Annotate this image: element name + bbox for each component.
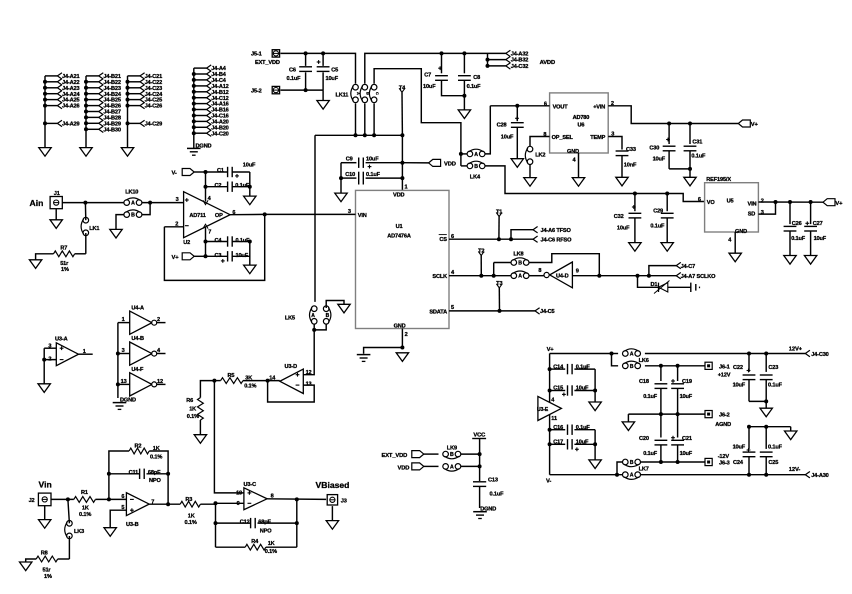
capacitor C2 bbox=[206, 186, 228, 188]
connector pin J4-B23 bbox=[86, 87, 99, 89]
wire U3-B pin5 gnd bbox=[110, 510, 126, 528]
svg-text:0.1uF: 0.1uF bbox=[576, 425, 591, 431]
wire LK4-B right to REF rail bbox=[485, 166, 635, 194]
node C26 top node bbox=[788, 200, 792, 204]
svg-text:C8: C8 bbox=[473, 75, 480, 81]
wire C16/C17 right gnd bbox=[594, 430, 596, 460]
svg-text:10uF: 10uF bbox=[680, 451, 693, 457]
svg-text:3: 3 bbox=[176, 197, 179, 203]
node junction J4-A12 bbox=[192, 84, 196, 88]
node VDD bus LK11-2 bbox=[363, 133, 367, 137]
node VDD bus LK11-1 bbox=[354, 133, 358, 137]
node C24 top node bbox=[747, 425, 751, 429]
svg-text:R7: R7 bbox=[60, 246, 67, 252]
svg-text:1%: 1% bbox=[61, 267, 69, 273]
svg-text:0.1uF: 0.1uF bbox=[576, 364, 591, 370]
buffer U4-B bbox=[130, 342, 152, 365]
node junction J4-C23 bbox=[126, 86, 130, 90]
node LK7 V- node bbox=[615, 473, 619, 477]
connector pin J4-B30 bbox=[86, 128, 99, 130]
svg-text:R8: R8 bbox=[41, 550, 48, 556]
capacitor C18 bbox=[660, 366, 662, 381]
node C10 left node bbox=[339, 176, 343, 180]
buffer U4-F bbox=[130, 373, 152, 396]
svg-text:VCC: VCC bbox=[473, 432, 486, 438]
svg-text:U5: U5 bbox=[727, 199, 734, 205]
capacitor C14 bbox=[550, 368, 566, 370]
svg-text:A: A bbox=[311, 313, 315, 319]
connector pin J4-A25 bbox=[45, 99, 57, 101]
svg-text:LK8: LK8 bbox=[513, 251, 523, 257]
capacitor C17 bbox=[550, 443, 566, 445]
wire LK8-B tap bbox=[493, 263, 495, 276]
node junction J4-C24 bbox=[126, 92, 130, 96]
node junction J4-B28 bbox=[84, 115, 88, 119]
capacitor C24 bbox=[748, 427, 750, 449]
node C25 top node bbox=[764, 425, 768, 429]
wire R1 to U3-B bbox=[95, 498, 126, 500]
ground C5 bbox=[317, 101, 329, 110]
svg-text:C25: C25 bbox=[768, 460, 778, 466]
wire U3-C feedback right bbox=[296, 499, 298, 547]
svg-text:C20: C20 bbox=[639, 436, 649, 442]
svg-text:C14: C14 bbox=[553, 364, 564, 370]
wire C22/C23 gnd stem bbox=[765, 401, 767, 408]
ground C9/C10 bbox=[335, 193, 347, 202]
wire U3-A gnd stem bbox=[43, 360, 45, 384]
svg-text:C6: C6 bbox=[289, 67, 296, 73]
capacitor C3 bbox=[206, 255, 228, 257]
connector pin J4-B25 bbox=[86, 99, 99, 101]
svg-text:J4-A30: J4-A30 bbox=[811, 473, 828, 479]
wire J5-2 gnd stem bbox=[322, 90, 324, 100]
node U5 SD loop node bbox=[774, 200, 778, 204]
node U2 out node bbox=[263, 212, 267, 216]
jumper LK8-A bbox=[511, 273, 517, 279]
node C29 top node bbox=[665, 192, 669, 196]
wire LK4-B left bbox=[461, 165, 467, 167]
jumper LK9-A bbox=[443, 464, 449, 470]
svg-text:NPO: NPO bbox=[260, 528, 272, 534]
wire R5 left bbox=[214, 380, 220, 382]
ground LK10-B bbox=[110, 229, 122, 238]
svg-text:10uF: 10uF bbox=[576, 440, 589, 446]
svg-text:10uF: 10uF bbox=[733, 445, 746, 451]
capacitor C21 bbox=[677, 414, 679, 437]
wire U3-C out bbox=[267, 498, 326, 501]
wire R2 right branch bbox=[149, 451, 168, 504]
op-amp U3-B bbox=[126, 493, 149, 516]
wire T3 stem bbox=[498, 288, 500, 311]
pin 7 mark U2 bbox=[203, 224, 208, 228]
node U3-C out node bbox=[295, 497, 299, 501]
svg-text:U4-A: U4-A bbox=[131, 305, 144, 311]
svg-text:10uF: 10uF bbox=[576, 386, 589, 392]
node C31 top node bbox=[688, 122, 692, 126]
node J4-B32 node bbox=[486, 58, 490, 62]
svg-text:10: 10 bbox=[236, 491, 242, 497]
jumper LK11-1 bbox=[353, 84, 359, 90]
connector pin J4-C12 bbox=[194, 97, 207, 99]
svg-text:0.1uF: 0.1uF bbox=[768, 445, 783, 451]
jumper LK11-2 bbox=[362, 84, 368, 90]
connector pin J4-B27 bbox=[86, 111, 99, 113]
node junction J4-B24 bbox=[84, 92, 88, 96]
power tag VDD bottom bbox=[412, 463, 424, 470]
svg-text:C30: C30 bbox=[649, 145, 659, 151]
wire U4-A in bbox=[118, 322, 130, 324]
svg-text:0.1%: 0.1% bbox=[185, 520, 197, 526]
ground AGND mid bbox=[622, 422, 634, 431]
svg-text:10uF: 10uF bbox=[236, 253, 249, 259]
ground U3-A bbox=[38, 384, 50, 393]
node junction J4-A20 bbox=[192, 119, 196, 123]
svg-text:GND: GND bbox=[394, 324, 406, 330]
node C2 right node bbox=[248, 185, 252, 189]
node LK3 tap node bbox=[66, 497, 70, 501]
wire U5 GND stem bbox=[734, 232, 736, 253]
node C4 left node bbox=[204, 240, 208, 244]
svg-text:B: B bbox=[518, 261, 522, 267]
connector pin J4-A21 bbox=[45, 75, 57, 77]
resistor R5 bbox=[221, 378, 243, 384]
ground R7 bbox=[29, 260, 41, 269]
svg-text:AGND: AGND bbox=[715, 422, 731, 428]
node C18 bottom node bbox=[659, 412, 663, 416]
power tag V+ AD780 bbox=[738, 120, 750, 127]
wire J5-1 to LK11-1 bbox=[281, 53, 356, 83]
svg-text:LK1: LK1 bbox=[89, 226, 99, 232]
connector stack J4-A bus wire bbox=[44, 76, 46, 148]
svg-text:C18: C18 bbox=[639, 379, 649, 385]
capacitor C32 bbox=[634, 194, 636, 212]
capacitor C8 bbox=[463, 53, 465, 73]
connector J4-A32 bbox=[488, 52, 506, 54]
ground C16/C17 bbox=[589, 460, 601, 469]
wire R2/C11 left branch bbox=[109, 451, 129, 499]
svg-text:9: 9 bbox=[237, 501, 240, 507]
capacitor C29 bbox=[666, 194, 668, 212]
wire U2 feedback bbox=[164, 214, 264, 280]
wire U2 pin2 wire bbox=[164, 226, 183, 228]
wire AVDD rail bbox=[442, 52, 488, 54]
jumper LK6-B bbox=[623, 363, 629, 369]
jumper LK8-B bbox=[511, 260, 517, 266]
node CS tap node bbox=[509, 237, 513, 241]
node U1 GND node bbox=[400, 346, 404, 350]
wire J6-3 rail bbox=[640, 461, 705, 463]
node C10 right node bbox=[400, 176, 404, 180]
wire LK3 bottom bbox=[68, 536, 70, 559]
connector pin J4-A16 bbox=[194, 103, 207, 105]
svg-text:0.1uF: 0.1uF bbox=[650, 224, 665, 230]
capacitor C22 bbox=[748, 354, 750, 372]
svg-text:C2: C2 bbox=[215, 183, 222, 189]
connector stack J4-B bus wire bbox=[85, 76, 87, 148]
svg-text:8: 8 bbox=[538, 268, 541, 274]
svg-text:0.1%: 0.1% bbox=[265, 549, 277, 555]
node C12 left node bbox=[214, 521, 218, 525]
svg-text:0.1uF: 0.1uF bbox=[467, 84, 482, 90]
svg-text:OP: OP bbox=[215, 213, 223, 219]
svg-text:0.1uF: 0.1uF bbox=[643, 451, 658, 457]
capacitor C31 bbox=[689, 124, 691, 145]
node junction J4-B27 bbox=[84, 110, 88, 114]
node junction J4-A29 bbox=[43, 121, 47, 125]
connector J5-2 bbox=[272, 86, 279, 93]
power tag V+ REF195 bbox=[823, 199, 835, 206]
wire R5 node to R6 bbox=[200, 381, 214, 398]
wire VDD bus rail bbox=[315, 134, 402, 136]
connector J4-C6 RFSO bbox=[533, 236, 538, 242]
svg-text:GND: GND bbox=[567, 149, 579, 155]
svg-text:10uF: 10uF bbox=[243, 162, 256, 168]
wire pin7 to V+ bbox=[205, 228, 207, 257]
wire U4-B in bbox=[118, 353, 130, 355]
wire U4-A out stub bbox=[157, 322, 166, 324]
svg-text:AVDD: AVDD bbox=[540, 60, 555, 66]
wire U4 input bus bbox=[117, 323, 119, 398]
connector pin J4-B24 bbox=[86, 93, 99, 95]
node C4 right node bbox=[248, 240, 252, 244]
node SDATA T3 node bbox=[498, 309, 502, 313]
wire VOUT wire bbox=[490, 105, 549, 107]
connector J6-2 bbox=[705, 411, 712, 418]
wire J2 to R1 bbox=[51, 498, 74, 500]
ground AGND stack-B bbox=[80, 148, 92, 157]
wire R7 right bbox=[75, 253, 86, 255]
svg-text:C: C bbox=[375, 92, 380, 95]
svg-text:10uF: 10uF bbox=[366, 157, 379, 163]
svg-text:10uF: 10uF bbox=[501, 134, 514, 140]
svg-text:0.1%: 0.1% bbox=[244, 383, 256, 389]
power tag VDD mid bbox=[402, 162, 428, 164]
connector pin J4-C26 bbox=[128, 105, 141, 107]
wire LK11-2 bottom to VDD bus bbox=[364, 103, 366, 135]
ground C3/C4 bbox=[244, 265, 256, 274]
svg-text:AD780: AD780 bbox=[573, 115, 590, 121]
jumper LK7-A bbox=[623, 472, 629, 478]
wire U3-A out stub bbox=[79, 353, 93, 355]
wire C11 left lead bbox=[109, 473, 140, 475]
wire C30/C31 bottom bbox=[669, 168, 690, 170]
svg-text:U4-D: U4-D bbox=[556, 274, 569, 280]
wire J4-32 stub bbox=[487, 53, 489, 66]
wire LK2 bottom bbox=[529, 164, 531, 177]
svg-text:0.1uF: 0.1uF bbox=[768, 382, 783, 388]
capacitor C7 bbox=[441, 53, 443, 73]
wire U3-A pin3 bbox=[44, 347, 56, 349]
node VDD bus T4-line bbox=[400, 133, 404, 137]
svg-text:7: 7 bbox=[208, 230, 211, 236]
wire U1 GND to DGND bbox=[364, 348, 403, 354]
ground R8 bbox=[20, 562, 32, 571]
wire LK11-3 top to LK4 bbox=[374, 69, 461, 166]
svg-text:12V-: 12V- bbox=[789, 467, 801, 473]
ground DGND stack-D bbox=[187, 147, 201, 149]
wire D1 to pads bbox=[668, 286, 691, 288]
svg-text:C9: C9 bbox=[346, 157, 353, 163]
svg-text:V+: V+ bbox=[751, 122, 759, 128]
ground C29 bbox=[661, 243, 673, 252]
connector pin J4-A26 bbox=[45, 105, 57, 107]
ic U5 REF195 bbox=[705, 183, 759, 232]
ground C26 bbox=[784, 256, 796, 265]
connector J4-B32 bbox=[488, 59, 506, 61]
ground C28 bbox=[511, 159, 523, 168]
wire LK10-B right bbox=[142, 203, 150, 215]
svg-text:J4-C26: J4-C26 bbox=[145, 104, 162, 110]
wire +VIN to V+ rail bbox=[608, 106, 738, 124]
connector pin J4-C23 bbox=[128, 87, 141, 89]
node junction J4-B23 bbox=[84, 86, 88, 90]
svg-text:C31: C31 bbox=[692, 140, 702, 146]
connector pin J4-B12 bbox=[194, 91, 207, 93]
connector pin J4-A12 bbox=[194, 85, 207, 87]
svg-text:C28: C28 bbox=[497, 122, 507, 128]
wire C24/C25 top bbox=[749, 426, 791, 428]
svg-text:68pF: 68pF bbox=[258, 520, 271, 526]
connector pin J4-C22 bbox=[128, 81, 141, 83]
svg-text:0.1uF: 0.1uF bbox=[366, 172, 381, 178]
svg-text:0.1uF: 0.1uF bbox=[287, 76, 302, 82]
svg-text:C26: C26 bbox=[792, 221, 802, 227]
wire AGND stem bbox=[627, 414, 629, 422]
capacitor C25 bbox=[765, 427, 767, 449]
jumper LK6-A bbox=[623, 351, 629, 357]
connector J4-A30 bbox=[805, 472, 810, 478]
wire LK11-3 bottom to VDD bus bbox=[373, 103, 375, 135]
svg-text:0.1uF: 0.1uF bbox=[691, 153, 706, 159]
wire U3-A pin2 gnd bbox=[44, 348, 56, 359]
wire LK5-B top to gnd bbox=[326, 301, 344, 309]
node J4-C32 node bbox=[486, 64, 490, 68]
connector pin J4-C4 bbox=[194, 79, 207, 81]
svg-text:Vin: Vin bbox=[39, 480, 52, 490]
wire R6 bottom bbox=[199, 420, 201, 435]
svg-text:SDATA: SDATA bbox=[429, 309, 447, 315]
connector pin J4-B22 bbox=[86, 81, 99, 83]
wire C9/C10 left bbox=[340, 163, 342, 193]
node junction J4-B26 bbox=[84, 104, 88, 108]
svg-text:0.1%: 0.1% bbox=[79, 512, 91, 518]
svg-text:VDD: VDD bbox=[393, 193, 404, 199]
svg-text:J4-A32: J4-A32 bbox=[511, 52, 528, 58]
connector pin J4-B16 bbox=[194, 109, 207, 111]
jumper LK2 bbox=[527, 146, 533, 152]
wire LK5-A bottom bbox=[313, 324, 315, 330]
svg-text:J4-C5: J4-C5 bbox=[540, 309, 555, 315]
wire U4-F out stub bbox=[157, 383, 166, 385]
svg-text:J6-2: J6-2 bbox=[719, 413, 730, 419]
connector pin J4-A22 bbox=[45, 81, 57, 83]
svg-text:J2: J2 bbox=[29, 498, 35, 504]
svg-text:51r: 51r bbox=[60, 261, 69, 267]
svg-text:0.1uF: 0.1uF bbox=[490, 492, 505, 498]
svg-text:B: B bbox=[326, 313, 330, 319]
svg-text:U3-E: U3-E bbox=[537, 407, 549, 413]
svg-text:0.1uF: 0.1uF bbox=[235, 183, 250, 189]
connector pin J4-B26 bbox=[86, 105, 99, 107]
node junction J4-A26 bbox=[43, 104, 47, 108]
connector pin J4-A4 bbox=[194, 67, 207, 69]
svg-text:V-: V- bbox=[546, 479, 551, 485]
ground LK5-B bbox=[338, 304, 350, 313]
svg-text:C32: C32 bbox=[614, 214, 624, 220]
svg-text:J4-A26: J4-A26 bbox=[62, 104, 79, 110]
svg-text:-12V: -12V bbox=[718, 454, 730, 460]
wire V+ rail bbox=[550, 353, 612, 355]
svg-text:V-: V- bbox=[172, 171, 177, 177]
svg-text:C19: C19 bbox=[682, 379, 692, 385]
node VDD bus LK11-3 bbox=[372, 133, 376, 137]
svg-text:V+: V+ bbox=[835, 201, 843, 207]
wire R8 right bbox=[58, 558, 70, 560]
capacitor C30 bbox=[668, 124, 670, 145]
svg-text:J4-A29: J4-A29 bbox=[62, 122, 79, 128]
svg-text:A: A bbox=[630, 352, 634, 358]
wire U5 SD loop bbox=[758, 202, 775, 214]
connector J4-A7 SCLKO bbox=[649, 275, 676, 277]
inverter U4-D bbox=[550, 262, 573, 288]
capacitor C1 bbox=[206, 171, 228, 173]
connector J6-1 bbox=[705, 362, 712, 369]
svg-text:VIN: VIN bbox=[358, 213, 367, 219]
ground C22/C23 bbox=[760, 408, 772, 417]
node U3-B out node bbox=[166, 502, 170, 506]
svg-text:U4-B: U4-B bbox=[131, 336, 144, 342]
ground DGND U4 bbox=[113, 402, 127, 404]
svg-text:U3-D: U3-D bbox=[285, 364, 298, 370]
svg-text:C27: C27 bbox=[813, 221, 823, 227]
svg-text:A: A bbox=[630, 473, 634, 479]
connector pin J4-C21 bbox=[128, 75, 141, 77]
wire LK11-1 bottom to VDD bus bbox=[355, 103, 357, 135]
svg-text:6: 6 bbox=[698, 197, 701, 203]
capacitor C11 bbox=[139, 469, 141, 479]
jumper LK10-B bbox=[124, 212, 130, 218]
wire U3-B out bbox=[149, 503, 180, 505]
wire LK1 top bbox=[84, 203, 86, 221]
connector pin J4-A29 bbox=[45, 122, 57, 124]
svg-text:U4-F: U4-F bbox=[131, 367, 144, 373]
svg-text:C4: C4 bbox=[215, 238, 223, 244]
node AVDD C8 bbox=[462, 51, 466, 55]
wire LK6-A right to 12V+ bbox=[645, 353, 805, 355]
svg-text:U2: U2 bbox=[183, 240, 190, 246]
svg-text:OP_SEL: OP_SEL bbox=[552, 135, 574, 141]
node junction J4-B30 bbox=[84, 127, 88, 131]
svg-text:A: A bbox=[131, 201, 135, 207]
svg-text:J4-B30: J4-B30 bbox=[103, 127, 120, 133]
connector pin J4-A20 bbox=[194, 120, 207, 122]
svg-text:A: A bbox=[450, 464, 454, 470]
svg-text:R2: R2 bbox=[135, 443, 142, 449]
connector J5-1 bbox=[272, 50, 279, 57]
svg-text:C1: C1 bbox=[217, 168, 224, 174]
wire TEMP to C33 bbox=[608, 137, 622, 150]
node junction J4-A16 bbox=[192, 102, 196, 106]
wire LK10-B left gnd bbox=[116, 215, 124, 230]
wire AGND mid rail bbox=[628, 413, 705, 415]
ground C32 bbox=[629, 243, 641, 252]
svg-text:C5: C5 bbox=[331, 67, 338, 73]
capacitor C16 bbox=[550, 429, 566, 431]
wire C12 left lead bbox=[216, 522, 251, 524]
svg-text:J4-A6 TFSO: J4-A6 TFSO bbox=[541, 228, 572, 234]
ground U6 bbox=[572, 178, 584, 187]
ground DGND U1 bbox=[357, 354, 371, 356]
